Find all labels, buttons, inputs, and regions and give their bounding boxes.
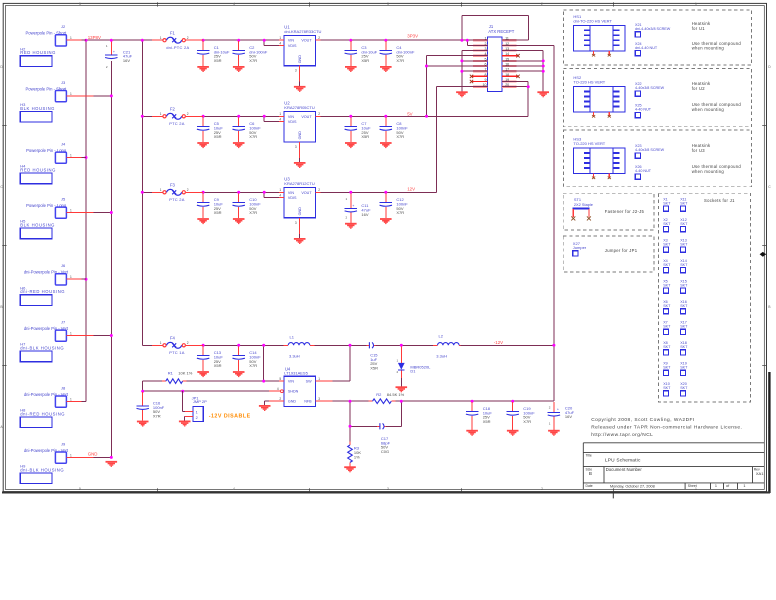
svg-text:18: 18: [505, 73, 509, 77]
svg-text:-12V DISABLE: -12V DISABLE: [209, 413, 251, 419]
svg-text:X7R: X7R: [249, 58, 257, 63]
wire net 5V: [321, 56, 530, 118]
svg-text:VOUT: VOUT: [301, 115, 312, 119]
svg-text:1: 1: [70, 208, 72, 212]
socket X7: [663, 321, 671, 335]
svg-text:F1: F1: [170, 31, 176, 36]
ground: [345, 142, 357, 148]
svg-text:SKT: SKT: [680, 263, 688, 267]
svg-text:3: 3: [295, 145, 297, 149]
svg-text:1: 1: [279, 112, 281, 116]
svg-text:Copyright 2008, Scott Cowling,: Copyright 2008, Scott Cowling, WA2DFI: [591, 417, 695, 423]
svg-text:1: 1: [160, 341, 162, 345]
ground: [294, 238, 306, 244]
connector J6: [24, 263, 72, 285]
svg-text:Fastener for J2-J5: Fastener for J2-J5: [605, 209, 645, 214]
J1 pin 17: [502, 68, 516, 72]
wire J8 pin stub: [66, 400, 81, 402]
svg-text:dni-TO-220 HS VERT: dni-TO-220 HS VERT: [573, 18, 612, 23]
svg-text:3: 3: [295, 221, 297, 225]
svg-text:16: 16: [505, 63, 509, 67]
svg-text:BLK HOUSING: BLK HOUSING: [20, 222, 55, 227]
svg-text:X7R: X7R: [153, 414, 161, 419]
socket X10: [663, 382, 671, 396]
regulator U2: [279, 101, 321, 163]
capacitor C13: [197, 346, 223, 371]
socket X5: [663, 280, 671, 294]
svg-text:KRA278R12CTU: KRA278R12CTU: [284, 181, 315, 186]
switching regulator U4: [269, 366, 333, 406]
svg-text:when mounting: when mounting: [692, 46, 725, 51]
svg-text:D1: D1: [410, 369, 416, 374]
svg-text:SKT: SKT: [680, 242, 688, 246]
svg-text:dni-BLK HOUSING: dni-BLK HOUSING: [20, 345, 64, 350]
svg-text:1: 1: [318, 377, 320, 381]
capacitor C16: [137, 392, 165, 420]
svg-text:4: 4: [233, 487, 235, 491]
wire net SW (L1 out to C15): [315, 344, 367, 381]
ground: [233, 66, 245, 72]
svg-text:LT1931AES5: LT1931AES5: [284, 370, 308, 375]
capacitor C20: [548, 402, 575, 430]
svg-text:X5R: X5R: [214, 210, 222, 215]
svg-text:X7R: X7R: [249, 363, 257, 368]
svg-text:4-40x3/8 SCREW: 4-40x3/8 SCREW: [635, 86, 665, 90]
socket X6: [663, 300, 671, 314]
wire net A (C15/D1/L2 node): [376, 344, 433, 347]
svg-text:+: +: [557, 408, 559, 412]
svg-text:when mounting: when mounting: [692, 169, 725, 174]
svg-text:3P3V: 3P3V: [407, 33, 418, 38]
svg-text:GND: GND: [288, 400, 297, 404]
svg-text:VOUT: VOUT: [301, 191, 312, 195]
svg-text:12: 12: [505, 42, 509, 46]
svg-text:Date: Date: [586, 484, 593, 488]
svg-text:SKT: SKT: [663, 304, 671, 308]
svg-text:17: 17: [505, 68, 509, 72]
wire JP1 pin1 to SHDN: [183, 391, 185, 411]
svg-text:2: 2: [279, 397, 281, 401]
J1 pin 10: [473, 83, 487, 87]
capacitor C2: [233, 41, 268, 66]
svg-text:1: 1: [70, 153, 72, 157]
svg-text:X5R: X5R: [214, 134, 222, 139]
socket X11: [680, 197, 688, 211]
screw X22: [635, 82, 665, 96]
svg-text:VOUT: VOUT: [301, 39, 312, 43]
ground: [294, 162, 306, 168]
connector J1 ATX-RECEPT: [488, 24, 515, 91]
svg-text:VDIS: VDIS: [288, 196, 297, 200]
svg-text:4: 4: [485, 52, 487, 56]
svg-text:GND: GND: [88, 452, 98, 457]
socket X13: [680, 238, 688, 252]
capacitor C5: [197, 117, 223, 142]
J1 pin 6: [473, 63, 487, 67]
text copyright notice: [591, 417, 742, 438]
svg-text:2: 2: [187, 36, 189, 40]
svg-text:2: 2: [187, 188, 189, 192]
text heatsink note 1: [692, 21, 742, 51]
svg-text:2: 2: [187, 341, 189, 345]
ground: [197, 142, 209, 148]
ground: [233, 142, 245, 148]
svg-text:1: 1: [695, 2, 697, 6]
svg-text:1: 1: [279, 188, 281, 192]
svg-text:X5R: X5R: [214, 363, 222, 368]
svg-text:GND: GND: [298, 207, 302, 216]
svg-text:http://www.tapr.org/NCL: http://www.tapr.org/NCL: [591, 432, 653, 438]
svg-text:dni-KRA278R33CTU: dni-KRA278R33CTU: [284, 29, 321, 34]
svg-text:dni-RED HOUSING: dni-RED HOUSING: [20, 289, 65, 294]
capacitor C9: [197, 193, 223, 218]
svg-text:SW: SW: [306, 380, 312, 384]
connector J9: [24, 441, 72, 463]
svg-text:5: 5: [279, 377, 281, 381]
ground: [456, 91, 468, 97]
svg-text:LPU Schematic: LPU Schematic: [605, 458, 641, 464]
J1 pin 2: [473, 42, 487, 46]
socket X4: [663, 259, 671, 273]
jumper X27: [573, 241, 587, 256]
wire net VIN4 (F4 to L1 and U4): [187, 344, 284, 383]
svg-text:5: 5: [79, 487, 81, 491]
svg-text:dni-PTC 2A: dni-PTC 2A: [166, 45, 189, 50]
svg-text:3.3uH: 3.3uH: [436, 353, 447, 358]
ground: [197, 66, 209, 72]
svg-text:X7R: X7R: [249, 210, 257, 215]
wire net VIN row y=40.2: [202, 39, 279, 46]
resistor R1: [162, 370, 193, 383]
dashed box heatsink HS2 for U2: [563, 68, 751, 126]
svg-text:dni-4-40 NUT: dni-4-40 NUT: [635, 46, 658, 50]
wire C17 return branch: [386, 401, 401, 426]
svg-text:16V: 16V: [565, 414, 572, 419]
capacitor C19: [507, 402, 536, 430]
svg-text:VIN: VIN: [288, 191, 294, 195]
wire J4 pin stub: [66, 157, 81, 159]
J1 pin 16: [502, 63, 516, 67]
svg-text:L1: L1: [290, 334, 295, 339]
svg-text:VIN: VIN: [288, 115, 294, 119]
fuse F4: [152, 336, 203, 356]
svg-text:7: 7: [485, 68, 487, 72]
socket X12: [680, 218, 688, 232]
svg-text:1: 1: [196, 410, 198, 414]
ground: [380, 66, 392, 72]
svg-text:RED HOUSING: RED HOUSING: [20, 50, 56, 55]
wire net -12V: [391, 45, 555, 402]
fuse F1: [152, 31, 203, 51]
svg-text:SKT: SKT: [663, 263, 671, 267]
svg-text:3: 3: [318, 397, 320, 401]
svg-text:4: 4: [233, 2, 235, 6]
svg-text:+: +: [113, 50, 115, 54]
no-connect J1 pin 9: [470, 80, 473, 83]
ground: [294, 86, 306, 92]
svg-text:F3: F3: [170, 183, 176, 188]
resistor R2: [369, 392, 405, 404]
wire net NFB: [333, 400, 378, 442]
ground: [197, 371, 209, 377]
svg-text:SKT: SKT: [680, 222, 688, 226]
svg-text:+: +: [352, 204, 354, 208]
dashed box heatsink HS3 for U3: [563, 130, 751, 187]
housing H7: [20, 342, 64, 362]
svg-text:PTC 2A: PTC 2A: [169, 197, 185, 202]
svg-text:KRA278R05CTU: KRA278R05CTU: [284, 105, 315, 110]
svg-text:SKT: SKT: [680, 345, 688, 349]
svg-text:Sockets for J1: Sockets for J1: [704, 198, 735, 203]
socket X8: [663, 341, 671, 355]
capacitor C12: [380, 193, 409, 218]
J1 pin 11: [502, 37, 516, 41]
wire net 12V: [321, 87, 473, 194]
J1 pin 4: [473, 52, 487, 56]
ground: [106, 461, 118, 467]
ground: [344, 466, 356, 472]
wire J9 pin stub: [66, 456, 93, 458]
svg-text:JMP 2P: JMP 2P: [193, 399, 207, 404]
svg-text:16V: 16V: [361, 212, 368, 217]
svg-text:1: 1: [743, 484, 745, 488]
svg-text:20: 20: [505, 83, 509, 87]
J1 pin 18: [502, 73, 518, 77]
svg-text:2: 2: [541, 2, 543, 6]
svg-text:2: 2: [541, 487, 543, 491]
connector J3: [25, 80, 72, 102]
wire net GND at J1 left (pins 3,5,7): [460, 51, 473, 92]
svg-text:1: 1: [70, 36, 72, 40]
svg-text:for U2: for U2: [692, 86, 706, 91]
svg-text:4-40 NUT: 4-40 NUT: [635, 108, 652, 112]
capacitor C11: [345, 193, 371, 223]
svg-text:1: 1: [70, 92, 72, 96]
J1 pin 5: [473, 57, 487, 61]
ground: [233, 371, 245, 377]
svg-text:X7R: X7R: [396, 134, 404, 139]
ground: [179, 421, 191, 427]
capacitor C4: [380, 41, 415, 66]
svg-text:for U1: for U1: [692, 26, 706, 31]
svg-text:Monday, October 27, 2008: Monday, October 27, 2008: [610, 484, 655, 488]
svg-text:SKT: SKT: [663, 325, 671, 329]
svg-text:SKT: SKT: [680, 284, 688, 288]
svg-text:1: 1: [160, 112, 162, 116]
svg-text:1: 1: [715, 484, 717, 488]
svg-text:SKT: SKT: [680, 201, 688, 205]
svg-text:X5R: X5R: [361, 58, 369, 63]
svg-text:-12V: -12V: [494, 340, 503, 345]
housing H2: [20, 46, 56, 66]
svg-text:for U3: for U3: [692, 148, 706, 153]
screw X23: [635, 144, 665, 158]
svg-text:SKT: SKT: [663, 284, 671, 288]
ground: [233, 218, 245, 224]
capacitor C8: [380, 117, 409, 142]
svg-text:VDIS: VDIS: [288, 120, 297, 124]
svg-text:11: 11: [505, 37, 509, 41]
svg-text:SKT: SKT: [663, 345, 671, 349]
svg-text:Sheet: Sheet: [688, 484, 697, 488]
svg-text:Jumper: Jumper: [573, 245, 587, 250]
housing H9: [20, 464, 64, 484]
svg-text:X5R: X5R: [361, 134, 369, 139]
svg-text:SKT: SKT: [663, 242, 671, 246]
no-connect J1 pin 8: [470, 75, 473, 78]
J1 pin 13: [502, 47, 516, 51]
capacitor C21: [105, 44, 132, 69]
staple ST1: [573, 197, 593, 217]
no-connect staple foot left: [571, 216, 575, 220]
wire net GND (left ground bus): [94, 61, 113, 459]
svg-text:dni-RED HOUSING: dni-RED HOUSING: [20, 411, 65, 416]
svg-text:9: 9: [485, 78, 487, 82]
svg-text:VIN: VIN: [288, 39, 294, 43]
J1 pin 19: [502, 78, 516, 82]
fuse F3: [152, 183, 203, 203]
regulator U1: [279, 24, 322, 86]
svg-text:2: 2: [318, 188, 320, 192]
dashed box sockets for J1: [659, 193, 751, 402]
wire net 13P8V (input rail and buses): [85, 39, 153, 402]
dashed box jumper X27: [563, 236, 654, 272]
svg-text:8: 8: [485, 73, 487, 77]
svg-text:SKT: SKT: [663, 201, 671, 205]
J1 pin 1: [473, 37, 487, 41]
svg-text:X5R: X5R: [483, 419, 491, 424]
svg-text:SKT: SKT: [663, 386, 671, 390]
J1 pin 8: [472, 73, 488, 77]
ground: [345, 66, 357, 72]
resistor R3: [348, 442, 362, 467]
wire net GND at J1 right (pins 13,15,16,17): [516, 51, 544, 92]
svg-text:XA1: XA1: [756, 471, 764, 476]
wire J2 pin stub: [66, 39, 81, 41]
connector J8: [24, 385, 72, 407]
svg-text:X7R: X7R: [523, 419, 531, 424]
socket X15: [680, 280, 688, 294]
svg-text:Document Number: Document Number: [606, 467, 643, 472]
diode D1: [397, 346, 432, 386]
svg-text:5V: 5V: [407, 112, 412, 117]
capacitor C17: [377, 423, 391, 454]
wire J5 pin stub: [66, 212, 93, 214]
svg-text:4: 4: [277, 387, 279, 391]
svg-text:12V: 12V: [407, 187, 415, 192]
svg-text:4-40 NUT: 4-40 NUT: [635, 169, 652, 173]
socket X18: [680, 341, 688, 355]
svg-text:SKT: SKT: [663, 222, 671, 226]
jumper JP1: [185, 395, 207, 421]
text heatsink note 3: [692, 143, 742, 174]
svg-text:B: B: [589, 471, 592, 476]
capacitor C14: [233, 346, 262, 371]
socket X17: [680, 321, 688, 335]
svg-text:dni-BLK HOUSING: dni-BLK HOUSING: [20, 467, 64, 472]
svg-text:15: 15: [505, 57, 509, 61]
svg-text:2: 2: [318, 112, 320, 116]
svg-text:TO-220 HS VERT: TO-220 HS VERT: [573, 79, 605, 84]
svg-text:5: 5: [485, 57, 487, 61]
J1 pin 9: [472, 78, 488, 82]
ground: [380, 218, 392, 224]
socket X2: [663, 218, 671, 232]
capacitor C3: [345, 41, 378, 66]
svg-text:2: 2: [318, 36, 320, 40]
svg-text:3: 3: [295, 69, 297, 73]
ground: [380, 142, 392, 148]
connector J4: [26, 141, 72, 163]
svg-text:5: 5: [79, 2, 81, 6]
housing H8: [20, 408, 65, 428]
wire net VIN row y=192.3: [202, 191, 279, 198]
wire JP1 pin2 to ground: [184, 417, 186, 421]
svg-text:1: 1: [70, 275, 72, 279]
J1 pin 7: [473, 68, 487, 72]
svg-text:GND: GND: [298, 55, 302, 64]
nut X24: [635, 42, 658, 56]
socket X1: [663, 197, 671, 211]
housing H6: [20, 285, 65, 305]
connector J5: [26, 196, 72, 218]
svg-text:SKT: SKT: [663, 366, 671, 370]
svg-text:4: 4: [279, 41, 281, 45]
svg-text:13: 13: [505, 47, 509, 51]
svg-text:PTC 1A: PTC 1A: [169, 350, 185, 355]
svg-text:NFB: NFB: [304, 400, 312, 404]
housing H5: [20, 219, 55, 239]
svg-text:1: 1: [70, 397, 72, 401]
capacitor C7: [345, 117, 371, 142]
socket X16: [680, 300, 688, 314]
svg-text:6: 6: [485, 63, 487, 67]
capacitor C1: [197, 41, 230, 66]
socket X9: [663, 362, 671, 376]
svg-text:1: 1: [485, 37, 487, 41]
svg-text:2: 2: [196, 416, 198, 420]
svg-text:1: 1: [160, 36, 162, 40]
J1 pin 3: [473, 47, 487, 51]
svg-text:4: 4: [279, 193, 281, 197]
svg-text:3: 3: [485, 47, 487, 51]
ground: [548, 430, 560, 436]
svg-text:when mounting: when mounting: [692, 107, 725, 112]
ground: [137, 421, 149, 427]
svg-text:RED HOUSING: RED HOUSING: [20, 167, 56, 172]
svg-text:10K 1%: 10K 1%: [178, 370, 192, 375]
no-connect J1 pin 18: [516, 75, 519, 78]
svg-text:3: 3: [387, 487, 389, 491]
svg-text:Released under TAPR Non-commer: Released under TAPR Non-commercial Hardw…: [591, 425, 742, 431]
ground: [197, 218, 209, 224]
J1 pin 12: [502, 42, 516, 46]
wire J3 pin stub: [66, 95, 93, 97]
svg-text:SKT: SKT: [680, 325, 688, 329]
svg-text:ATX RECEPT: ATX RECEPT: [488, 29, 514, 34]
svg-text:14: 14: [505, 52, 509, 56]
J1 pin 15: [502, 57, 516, 61]
svg-text:X7R: X7R: [396, 58, 404, 63]
socket X14: [680, 259, 688, 273]
inductor L1: [284, 334, 315, 358]
nut X26: [635, 165, 652, 179]
svg-text:1: 1: [70, 331, 72, 335]
ground: [466, 430, 478, 436]
svg-text:SKT: SKT: [680, 304, 688, 308]
dashed box heatsink HS1 for U1: [563, 10, 751, 65]
svg-text:X5R: X5R: [214, 58, 222, 63]
